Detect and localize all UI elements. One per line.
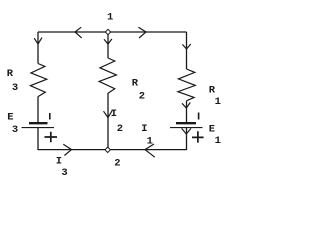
current arrow down above battery E1	[182, 103, 190, 109]
wire top horizontal	[38, 31, 187, 33]
svg-text:3: 3	[12, 82, 18, 94]
svg-text:1: 1	[147, 135, 153, 147]
svg-text:I: I	[111, 108, 117, 120]
wire bottom horizontal	[38, 149, 187, 151]
battery E1 negative plate (short thick)	[176, 122, 196, 124]
current arrow down on right branch top	[182, 44, 190, 49]
battery E1 minus tick	[198, 113, 200, 120]
current arrow into node 1 from right side of left top wire (pointing left)	[75, 27, 82, 38]
svg-text:1: 1	[215, 96, 221, 108]
svg-text:3: 3	[12, 124, 18, 136]
battery E3 plus sign	[45, 132, 58, 142]
wire right branch between R1 and E1	[186, 101, 188, 123]
svg-text:R: R	[132, 77, 139, 89]
current arrow I1 on bottom wire (pointing left)	[145, 144, 155, 157]
svg-text:R: R	[209, 84, 216, 96]
current arrow down below battery E1	[182, 128, 191, 134]
svg-text:I: I	[141, 123, 147, 135]
wire right branch below E1	[186, 128, 188, 150]
wire middle branch lower segment	[107, 93, 109, 148]
battery E1 positive plate (long thin)	[170, 127, 203, 129]
node 2 junction diamond	[105, 147, 110, 152]
wire middle branch upper segment	[107, 32, 109, 58]
svg-text:E: E	[209, 123, 215, 135]
battery E1 plus sign	[192, 131, 204, 142]
wire left branch below E3	[37, 128, 39, 150]
resistor R2 zigzag	[99, 58, 116, 93]
svg-text:2: 2	[139, 90, 145, 102]
current arrow I2 down on middle branch	[104, 111, 113, 118]
wire right branch upper segment	[186, 32, 188, 69]
resistor R3 zigzag	[30, 64, 46, 97]
wire left branch upper segment	[37, 32, 39, 64]
svg-text:2: 2	[117, 123, 123, 135]
svg-text:I: I	[56, 155, 62, 167]
current arrow into node 1 from left side of right top wire (pointing right)	[138, 27, 146, 38]
resistor R1 zigzag	[178, 69, 195, 101]
battery E3 negative plate (short thick)	[29, 122, 48, 124]
current arrow down on left branch top	[34, 38, 42, 44]
current arrow down on middle branch below node 1	[104, 39, 112, 44]
battery E3 minus tick	[49, 113, 51, 120]
svg-text:1: 1	[215, 135, 221, 147]
svg-text:R: R	[7, 68, 14, 80]
svg-text:1: 1	[107, 11, 113, 23]
battery E3 positive plate (long thin)	[22, 127, 55, 129]
svg-text:2: 2	[114, 157, 120, 169]
current arrow I3 on bottom wire (pointing right)	[63, 144, 71, 155]
node 1 junction diamond	[105, 29, 110, 34]
svg-text:3: 3	[61, 167, 67, 179]
wire left branch between R3 and E3	[37, 97, 39, 123]
svg-text:E: E	[7, 112, 13, 124]
